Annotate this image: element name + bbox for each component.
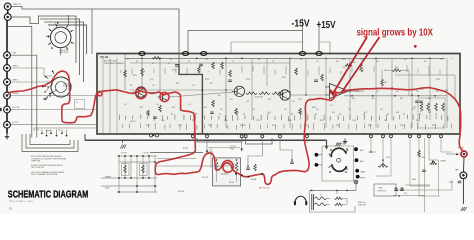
svg-text:SELECTOR: SELECTOR [336, 144, 345, 146]
svg-text:470: 470 [218, 95, 221, 97]
svg-text:R60: R60 [428, 112, 431, 114]
svg-text:C741: C741 [352, 120, 356, 122]
svg-text:C45: C45 [188, 104, 191, 106]
svg-text:C770: C770 [172, 70, 176, 72]
svg-text:R735: R735 [320, 120, 324, 122]
svg-text:PHONO: PHONO [360, 178, 366, 180]
svg-text:C749: C749 [400, 125, 404, 127]
svg-text:C3: C3 [152, 63, 154, 65]
svg-text:R730 1500: R730 1500 [255, 97, 263, 99]
svg-text:SEE FIG 1/10: SEE FIG 1/10 [259, 188, 269, 190]
svg-text:R58: R58 [396, 112, 399, 114]
svg-text:R25: R25 [210, 83, 213, 85]
svg-text:C7: C7 [232, 61, 234, 63]
svg-text:C53: C53 [316, 109, 319, 111]
svg-text:C754: C754 [436, 79, 440, 81]
svg-text:C47: C47 [220, 109, 223, 111]
svg-text:R50: R50 [268, 112, 271, 114]
svg-text:COMPONENT NUMBERS: COMPONENT NUMBERS [104, 63, 125, 65]
svg-text:R761: R761 [386, 157, 390, 159]
svg-text:ON: ON [58, 130, 60, 132]
svg-text:C49: C49 [252, 109, 255, 111]
svg-text:+15V: +15V [317, 20, 336, 31]
svg-text:C36: C36 [416, 91, 419, 93]
svg-text:R6: R6 [206, 59, 208, 61]
svg-text:R2-50K: R2-50K [229, 182, 234, 184]
svg-text:R35: R35 [396, 91, 399, 93]
svg-text:R14: R14 [376, 61, 379, 63]
svg-text:R52: R52 [300, 112, 303, 114]
svg-text:T1: T1 [320, 195, 322, 197]
svg-text:OFF: OFF [36, 130, 39, 132]
svg-text:C719: C719 [224, 120, 228, 122]
svg-text:C22: C22 [152, 85, 155, 87]
svg-text:IC1: IC1 [330, 105, 333, 107]
svg-text:TUNER: TUNER [360, 172, 366, 174]
svg-text:C62: C62 [413, 107, 416, 109]
svg-text:C17: C17 [440, 59, 443, 61]
svg-text:R720: R720 [246, 79, 250, 81]
svg-text:CONTROLS: CONTROLS [377, 191, 386, 193]
svg-text:R33: R33 [356, 91, 359, 93]
svg-text:STEREO: STEREO [105, 177, 112, 179]
svg-text:R727: R727 [272, 125, 276, 127]
svg-text:TAPE OUT: TAPE OUT [13, 3, 21, 6]
svg-text:VOL 50K: VOL 50K [202, 177, 208, 179]
svg-text:R723 1K: R723 1K [240, 125, 247, 127]
svg-text:R753: R753 [416, 120, 420, 122]
svg-text:10-48 RIGHT: 10-48 RIGHT [63, 86, 72, 88]
svg-text:R710: R710 [133, 75, 137, 77]
svg-text:R54: R54 [332, 112, 335, 114]
svg-text:10-6F LEFT: 10-6F LEFT [59, 50, 68, 52]
svg-text:R44: R44 [172, 107, 175, 109]
svg-text:R23: R23 [176, 83, 179, 85]
svg-text:R60: R60 [352, 98, 355, 100]
svg-text:R37: R37 [436, 91, 439, 93]
svg-text:C730: C730 [298, 99, 302, 101]
svg-text:R21: R21 [130, 85, 133, 87]
svg-text:FUSE: FUSE [230, 148, 234, 150]
svg-text:C11: C11 [316, 61, 319, 63]
svg-text:R66: R66 [428, 98, 431, 100]
svg-text:PHONO: PHONO [13, 93, 20, 95]
svg-text:C9: C9 [272, 61, 274, 63]
svg-text:ELECT SIM: ELECT SIM [358, 205, 367, 207]
svg-text:NESS: NESS [412, 179, 416, 181]
svg-text:R2: R2 [136, 61, 138, 63]
svg-text:10-6F RIGHT: 10-6F RIGHT [59, 52, 69, 54]
svg-text:C30: C30 [292, 101, 295, 103]
svg-text:C15: C15 [404, 59, 407, 61]
svg-text:R59: R59 [384, 82, 387, 84]
svg-text:R724: R724 [282, 77, 286, 79]
svg-text:R711: R711 [146, 125, 150, 127]
svg-text:C34: C34 [376, 91, 379, 93]
svg-text:C57: C57 [380, 109, 383, 111]
svg-text:R27: R27 [230, 99, 233, 101]
svg-text:-15V: -15V [292, 18, 310, 29]
svg-text:R733: R733 [312, 107, 316, 109]
svg-text:TONE: TONE [378, 188, 382, 190]
svg-text:EXT. SW: EXT. SW [13, 107, 20, 109]
svg-text:CUT: CUT [404, 193, 407, 195]
svg-text:C5: C5 [188, 61, 190, 63]
svg-text:R56: R56 [364, 112, 367, 114]
svg-text:C58: C58 [342, 67, 345, 69]
svg-text:1500: 1500 [371, 98, 375, 100]
svg-text:C41: C41 [124, 104, 127, 106]
svg-text:UN FUSE: UN FUSE [178, 191, 185, 193]
svg-text:R10: R10 [300, 59, 303, 61]
svg-text:VOLUME: VOLUME [250, 179, 256, 181]
svg-text:R4: R4 [170, 59, 172, 61]
svg-text:TWIN DYNACO (INC): TWIN DYNACO (INC) [9, 200, 34, 203]
svg-text:C709 .1: C709 .1 [130, 121, 136, 123]
svg-text:R756: R756 [342, 59, 346, 61]
svg-text:OVER DIAL: OVER DIAL [31, 159, 41, 162]
svg-text:TAPE 2: TAPE 2 [13, 65, 19, 68]
svg-text:C24: C24 [192, 85, 195, 87]
svg-text:signal grows by 10X: signal grows by 10X [357, 28, 434, 39]
svg-text:R716: R716 [205, 79, 209, 81]
svg-text:TAPE 1: TAPE 1 [13, 79, 19, 82]
svg-text:C7: C7 [168, 63, 170, 65]
svg-text:C28: C28 [246, 101, 249, 103]
svg-text:R: R [420, 111, 421, 113]
svg-text:R12: R12 [336, 61, 339, 63]
svg-text:R1-50K: R1-50K [183, 148, 188, 150]
svg-text:4.7K 1W: 4.7K 1W [121, 153, 128, 155]
svg-text:R48: R48 [236, 112, 239, 114]
svg-text:TREBLE: TREBLE [441, 161, 446, 163]
svg-text:PC-3A: PC-3A [101, 55, 109, 59]
svg-text:R46: R46 [204, 107, 207, 109]
svg-text:R42: R42 [140, 107, 143, 109]
svg-text:R64: R64 [400, 98, 403, 100]
svg-text:C55: C55 [348, 109, 351, 111]
svg-text:C51: C51 [284, 109, 287, 111]
svg-text:C/L: C/L [76, 102, 79, 104]
svg-text:4.7K 1W: 4.7K 1W [143, 153, 150, 155]
svg-text:RIGHT CH: RIGHT CH [358, 202, 365, 204]
svg-text:R752: R752 [420, 89, 424, 91]
svg-text:R8: R8 [258, 59, 260, 61]
svg-text:C725: C725 [256, 120, 260, 122]
svg-text:R58: R58 [395, 67, 398, 69]
svg-text:C1: C1 [127, 59, 129, 61]
svg-text:LINE 2: LINE 2 [449, 182, 453, 184]
svg-text:C43: C43 [156, 104, 159, 106]
svg-text:RIGHT CHANNEL IS IDENTICAL.: RIGHT CHANNEL IS IDENTICAL. [31, 173, 59, 176]
svg-text:OFF POSITION.: OFF POSITION. [31, 167, 45, 169]
svg-text:2.5V CM: 2.5V CM [230, 146, 236, 148]
svg-text:SCHEMATIC DIAGRAM: SCHEMATIC DIAGRAM [8, 189, 89, 200]
svg-text:C59: C59 [412, 109, 415, 111]
svg-text:EXT. IN: EXT. IN [13, 122, 19, 124]
svg-text:R16: R16 [424, 61, 427, 63]
svg-text:R29: R29 [268, 99, 271, 101]
svg-text:WHITE: WHITE [46, 131, 51, 133]
